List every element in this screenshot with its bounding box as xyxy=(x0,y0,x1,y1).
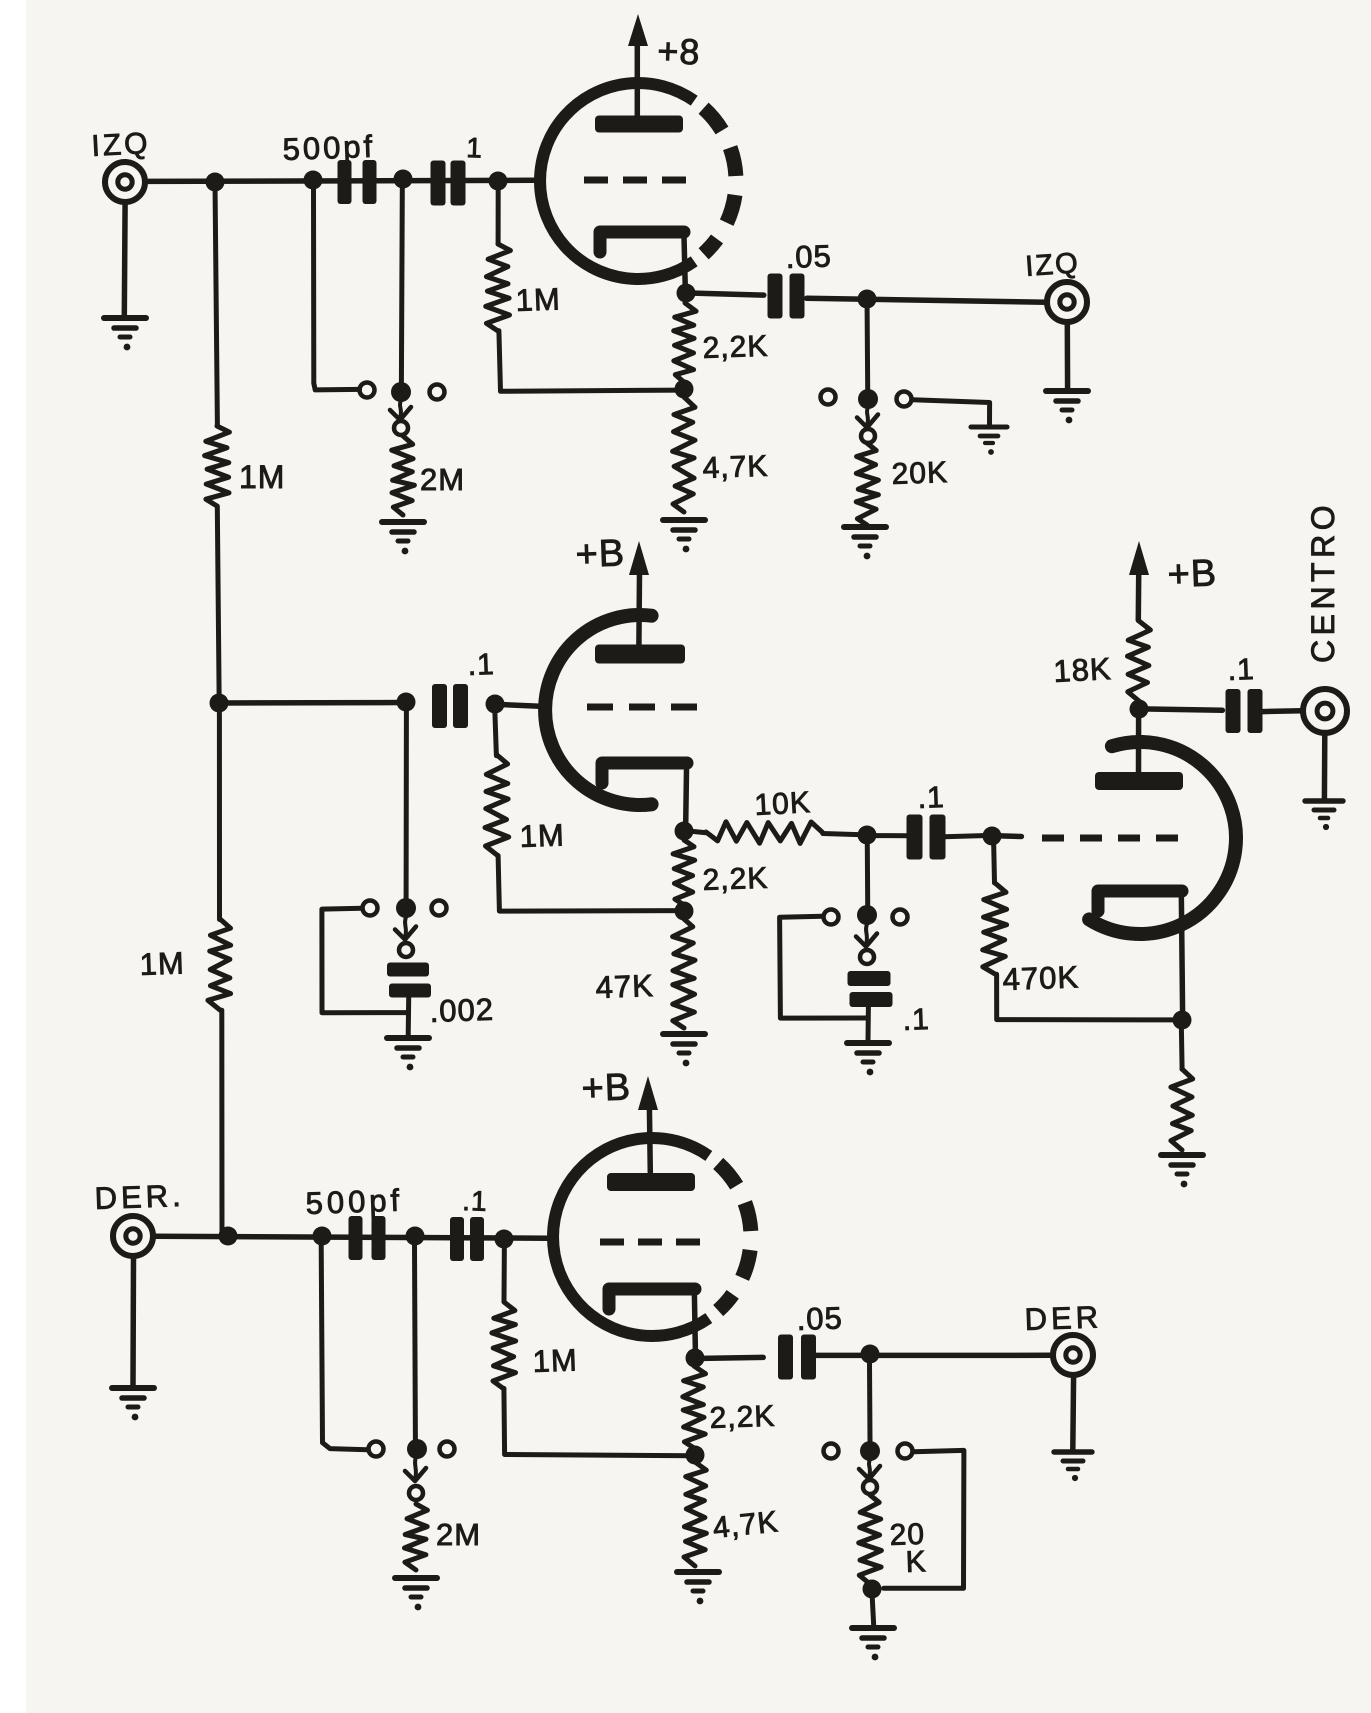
resistor R17 2.2K bot xyxy=(683,1366,706,1448)
svg-text:18K: 18K xyxy=(1053,651,1113,689)
connector J1 IZQ input jack xyxy=(105,162,145,202)
ground IZQ input xyxy=(104,318,146,350)
wire V1 plate to +B xyxy=(635,43,641,116)
svg-text:500pf: 500pf xyxy=(305,1183,404,1221)
node junction bus middle tap xyxy=(210,694,229,713)
wire 10K to cap xyxy=(823,834,867,835)
wire V4 plate to +B xyxy=(647,1108,653,1173)
tube V2 grid dashes xyxy=(587,704,697,711)
wire bus to DER line xyxy=(219,1010,224,1236)
capacitor C3 .05 xyxy=(768,274,805,319)
capacitor C10 .1 bot xyxy=(450,1217,484,1261)
node V2 cathode junction xyxy=(675,822,694,841)
svg-text:IZQ: IZQ xyxy=(1024,247,1080,283)
tube V4 grid dashes xyxy=(600,1239,700,1246)
wire switch left loop mid xyxy=(322,908,408,1012)
ground .002 xyxy=(387,1038,429,1070)
wire bus IZQ down xyxy=(215,183,217,426)
capacitor C9 500pf xyxy=(349,1216,386,1260)
connector J3 CENTRO jack xyxy=(1303,689,1347,733)
resistor R10 2.2K mid xyxy=(673,840,695,905)
ground 20K xyxy=(844,527,886,559)
resistor R15 1M grid T4 lead xyxy=(502,1240,507,1302)
switch S5 right contact xyxy=(440,1442,455,1457)
svg-text:CENTRO: CENTRO xyxy=(1305,501,1341,663)
capacitor C4 .1 mid xyxy=(432,684,468,728)
tube V1 plate xyxy=(595,116,683,133)
wire cathode to .05 bot xyxy=(695,1357,764,1358)
node junction grid T1 xyxy=(489,172,508,191)
wire bus below middle tap xyxy=(217,712,222,920)
switch S5 wiper xyxy=(415,1457,416,1479)
wire switch left loop S4 xyxy=(780,916,868,1018)
wire bus middle segment xyxy=(217,506,219,704)
svg-text:1M: 1M xyxy=(532,1342,578,1379)
resistor R5 4.7K lead xyxy=(681,389,686,397)
switch S1 pole xyxy=(391,382,411,402)
wire plate node to C8 xyxy=(1148,709,1222,710)
wire V1 cathode lead xyxy=(684,233,686,293)
tube V3 cathode xyxy=(1098,891,1182,911)
tube V2 cathode xyxy=(602,763,687,783)
wire IZQ input to grid xyxy=(146,180,537,181)
svg-text:2,2K: 2,2K xyxy=(702,330,769,365)
pot S6 wiper xyxy=(869,1459,870,1477)
node junction grid T2 xyxy=(486,695,505,714)
svg-text:.1: .1 xyxy=(902,1003,930,1037)
ground DER input xyxy=(112,1388,154,1420)
pot S6 pole xyxy=(860,1441,880,1461)
capacitor C11 .05 xyxy=(778,1335,816,1380)
ground 4.7K bot xyxy=(677,1572,719,1604)
svg-text:DER: DER xyxy=(1024,1299,1103,1337)
resistor R19 20K bot xyxy=(859,1495,882,1584)
svg-text:2,2K: 2,2K xyxy=(709,1400,776,1435)
svg-text:.1: .1 xyxy=(917,781,945,815)
switch S1 right contact xyxy=(430,385,445,400)
wire 500pf node down bot xyxy=(321,1245,367,1450)
svg-text:4,7K: 4,7K xyxy=(702,450,769,485)
svg-text:1M: 1M xyxy=(239,459,285,495)
tube V2 envelope xyxy=(545,615,652,805)
switch S1 left contact xyxy=(360,383,375,398)
wire .05 to DER out xyxy=(815,1353,1053,1359)
wire caps node down to switch pole xyxy=(399,188,405,382)
wire output node down to pot xyxy=(865,308,871,389)
ground 2M bot xyxy=(395,1578,437,1610)
tube V3 envelope xyxy=(1089,742,1236,934)
ground CENTRO xyxy=(1305,801,1343,830)
svg-text:.1: .1 xyxy=(1227,653,1255,687)
resistor R16 2M bot xyxy=(405,1504,428,1570)
tube V2 plate xyxy=(595,645,685,664)
resistor R14 cathode V3 xyxy=(1171,1069,1193,1150)
power +B arrow mid-left xyxy=(629,541,649,575)
wire V4 cathode lead xyxy=(694,1289,695,1352)
resistor R6 20K xyxy=(856,443,878,525)
switch S5 pole xyxy=(407,1439,427,1459)
tube V1 cathode xyxy=(600,232,684,252)
ground 20K bot xyxy=(852,1628,894,1660)
resistor R12 470K xyxy=(983,883,1007,974)
svg-text:2M: 2M xyxy=(436,1517,481,1552)
node junction .1 left mid xyxy=(397,693,416,712)
wire C6 to grid T3 node xyxy=(944,835,992,836)
node junction grid T3 xyxy=(983,827,1002,846)
pot S6 left contact xyxy=(824,1444,839,1459)
wire V3 plate to 18K node xyxy=(1136,717,1142,772)
svg-text:+B: +B xyxy=(581,1066,632,1110)
switch S4 wiper xyxy=(866,924,867,945)
svg-text:1M: 1M xyxy=(139,945,185,982)
wire 470K to cathode node xyxy=(997,974,1182,1020)
wire IZQ out jack ground xyxy=(1065,322,1071,390)
wire pot right loop bot xyxy=(884,1450,964,1588)
wire .002 bottom lead xyxy=(406,998,412,1036)
svg-text:20K: 20K xyxy=(891,456,949,491)
svg-text:.05: .05 xyxy=(796,1300,843,1337)
wire pot right contact to ground xyxy=(913,400,990,426)
svg-text:1M: 1M xyxy=(519,817,565,854)
svg-text:IZQ: IZQ xyxy=(91,127,152,163)
tube V3 grid dashes xyxy=(1042,835,1178,842)
node junction 2.2K/4.7K bot xyxy=(686,1446,705,1465)
power +B arrow top xyxy=(628,14,648,46)
tube V4 envelope xyxy=(553,1138,709,1336)
wire cathode node to R14 xyxy=(1179,1029,1185,1070)
connector J4 DER input jack xyxy=(113,1216,153,1256)
resistor R2 1M grid T1 xyxy=(486,244,511,331)
wire DER out jack ground xyxy=(1070,1376,1076,1450)
resistor R11 47K xyxy=(673,919,695,1028)
wire R2 bottom to cathode node xyxy=(499,331,684,392)
wire .05 to IZQ out xyxy=(807,298,1046,302)
switch S5 left contact xyxy=(369,1442,384,1457)
svg-text:.1: .1 xyxy=(467,648,495,682)
svg-text:+8: +8 xyxy=(657,30,701,72)
ground IZQ output xyxy=(1046,391,1088,423)
ground C7 xyxy=(847,1043,889,1075)
node junction output bot xyxy=(861,1345,880,1364)
ground 4.7K xyxy=(663,520,705,552)
pot S2 right contact xyxy=(897,392,912,407)
wire C6 node down to switch xyxy=(865,845,870,905)
ground 2M xyxy=(382,522,424,554)
pot S6 right contact xyxy=(898,1444,913,1459)
svg-text:.05: .05 xyxy=(785,238,832,275)
resistor R7 1M bus lower xyxy=(208,919,231,1010)
resistor R9 10K xyxy=(706,822,822,844)
svg-text:+B: +B xyxy=(1167,552,1218,596)
node junction 500pf left bot xyxy=(313,1227,332,1246)
power +B arrow bottom xyxy=(638,1076,658,1110)
ground 47K xyxy=(663,1034,705,1066)
svg-text:47K: 47K xyxy=(595,968,654,1005)
node junction input bus top xyxy=(206,173,225,192)
connector J2 IZQ output jack xyxy=(1047,282,1087,322)
power +B arrow right xyxy=(1129,541,1149,575)
wire mid node down to switch xyxy=(404,711,409,898)
resistor R5 4.7K xyxy=(673,397,695,512)
resistor R13 18K xyxy=(1128,621,1151,701)
wire R8 bottom to 2.2K node xyxy=(498,856,683,912)
capacitor C1 500pf xyxy=(338,160,377,204)
resistor R4 2.2K xyxy=(674,303,696,383)
node junction 2.2K mid xyxy=(675,902,694,921)
node junction 10K/C6 xyxy=(858,826,877,845)
wire junction to V3 grid xyxy=(992,833,1021,839)
capacitor C5 .002 xyxy=(387,963,431,998)
node junction between caps top xyxy=(394,170,413,189)
ground DER output xyxy=(1054,1452,1092,1481)
wire 10K node to C6 xyxy=(866,833,910,838)
wire C8 to CENTRO jack xyxy=(1262,708,1302,714)
resistor R18 4.7K bot xyxy=(684,1462,706,1566)
capacitor C2 .1 xyxy=(431,161,466,206)
svg-text:4,7K: 4,7K xyxy=(711,1505,780,1545)
node junction 20K bottom xyxy=(863,1580,882,1599)
pot S2 wiper xyxy=(867,407,868,426)
resistor R2 1M grid T1 lead top xyxy=(496,182,501,244)
node junction plate/18K xyxy=(1130,700,1149,719)
switch S4 pole xyxy=(857,905,877,925)
svg-text:1M: 1M xyxy=(515,281,561,318)
switch S3 right contact xyxy=(432,901,447,916)
wire V3 cathode lead xyxy=(1181,892,1182,1014)
wire 20K to ground xyxy=(872,1589,874,1626)
ground pot right top xyxy=(971,427,1007,455)
svg-text:.1: .1 xyxy=(462,1185,488,1217)
svg-text:DER.: DER. xyxy=(94,1178,185,1216)
svg-text:K: K xyxy=(905,1545,927,1579)
tube V4 plate xyxy=(607,1173,695,1191)
resistor R1 1M input shunt xyxy=(205,426,230,506)
wire middle tap to .1 xyxy=(220,700,407,706)
wire caps node down to pole bot xyxy=(412,1245,418,1440)
capacitor C7 .1 shunt xyxy=(848,971,893,1007)
switch S3 wiper xyxy=(405,917,406,938)
wire jack IZQ to ground xyxy=(122,203,128,317)
node V4 cathode junction xyxy=(686,1349,705,1368)
tube V3 plate xyxy=(1095,772,1183,790)
pot S2 left contact xyxy=(821,390,836,405)
wire cathode node to 10K xyxy=(685,831,706,833)
node V1 cathode junction xyxy=(677,284,696,303)
svg-text:1: 1 xyxy=(466,132,484,164)
resistor R8 1M grid T2 xyxy=(485,755,509,855)
svg-text:.002: .002 xyxy=(429,992,495,1029)
switch S1 wiper xyxy=(400,400,401,418)
ground R14 xyxy=(1161,1155,1203,1187)
wire CENTRO jack ground xyxy=(1322,732,1328,800)
svg-text:2,2K: 2,2K xyxy=(702,862,769,897)
svg-text:2M: 2M xyxy=(420,462,465,497)
wire V2 cathode lead xyxy=(686,763,687,831)
resistor R3 2M xyxy=(392,436,415,515)
node junction caps bot xyxy=(406,1227,425,1246)
wire DER jack to ground xyxy=(130,1257,136,1386)
wire junction to V2 grid xyxy=(494,704,545,706)
switch S3 pole xyxy=(396,898,416,918)
switch S4 right contact xyxy=(893,910,908,925)
tube V4 cathode xyxy=(609,1289,695,1309)
capacitor C8 .1 xyxy=(1226,689,1263,733)
node junction 500pf left xyxy=(304,171,323,190)
node junction output top xyxy=(858,290,877,309)
connector J5 DER output jack xyxy=(1053,1335,1093,1375)
wire output node down to pot bot xyxy=(867,1364,873,1441)
node junction grid T4 xyxy=(495,1230,514,1249)
wire 18K top to +B xyxy=(1136,575,1142,621)
switch S3 left contact xyxy=(363,901,378,916)
svg-text:470K: 470K xyxy=(1002,959,1080,997)
node junction bus DER xyxy=(219,1227,238,1246)
wire grid T3 node down xyxy=(991,844,997,883)
resistor R8 1M grid T2 lead xyxy=(495,704,497,756)
svg-text:500pf: 500pf xyxy=(282,129,376,167)
node junction 2.2K/4.7K xyxy=(675,380,694,399)
svg-text:+B: +B xyxy=(575,532,626,576)
switch S4 left contact xyxy=(824,910,839,925)
wire cathode to .05 xyxy=(685,293,764,295)
tube V1 envelope xyxy=(540,83,694,279)
wire C7 bottom lead xyxy=(866,1007,871,1041)
resistor R15 1M grid T4 xyxy=(492,1302,516,1389)
capacitor C6 .1 xyxy=(907,815,946,860)
tube V1 grid dashes xyxy=(584,177,686,184)
wire 500pf node down to switch xyxy=(314,189,360,390)
node V3 cathode junction xyxy=(1173,1011,1192,1030)
wire DER input to grid xyxy=(154,1236,549,1238)
wire R15 bottom to node xyxy=(504,1388,696,1455)
pot S2 pole xyxy=(858,389,878,409)
svg-text:10K: 10K xyxy=(754,786,812,822)
wire V2 plate to +B xyxy=(636,573,642,646)
